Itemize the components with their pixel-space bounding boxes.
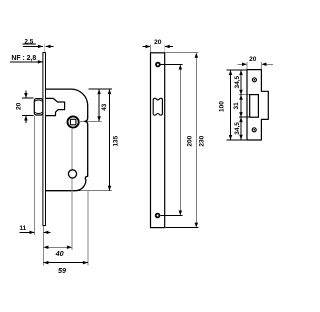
extension lines strike (100 dim): [227, 69, 247, 71]
svg-text:230: 230: [198, 135, 205, 146]
strike latch opening: [250, 95, 259, 118]
strike bottom screw hole: [252, 128, 256, 132]
dim 100 (strike height): [230, 70, 232, 140]
svg-text:2,5: 2,5: [24, 39, 33, 46]
dim 135 (case height): [109, 89, 111, 191]
svg-text:20: 20: [154, 39, 162, 46]
svg-text:40: 40: [55, 249, 64, 258]
strike top screw hole: [252, 78, 256, 82]
svg-text:135: 135: [113, 135, 120, 146]
svg-text:59: 59: [58, 266, 66, 275]
dim 43 (top to spindle axis): [98, 89, 100, 121]
faceplate latch cutout: [153, 98, 162, 115]
strike plate outline with lip: [247, 70, 268, 140]
svg-text:34,5: 34,5: [234, 122, 241, 135]
svg-text:20: 20: [15, 102, 22, 110]
dim 20 (faceplate width): [142, 46, 150, 48]
svg-text:200: 200: [186, 135, 193, 146]
middle view: faceplate front: [151, 53, 165, 228]
spindle follower circle: [68, 116, 79, 127]
dim 40 (backset): [43, 246, 72, 248]
faceplate side view (thin vertical plate): [43, 53, 46, 226]
gray extension line case back (59 dim): [87, 191, 89, 266]
dim 200 (screw hole spacing): [179, 65, 181, 216]
dim 20 (latch height): [22, 97, 34, 99]
extension line body top: [89, 88, 112, 90]
left view: lock body outline: [46, 89, 88, 191]
lower hole in case: [68, 170, 76, 178]
latch bolt tip (protruding): [34, 99, 43, 115]
gray extension line spindle axis (40 dim): [71, 129, 73, 250]
extension lines opening (34,5/31 dims): [239, 94, 250, 96]
gray extension line below faceplate (40/59 dims): [42, 226, 44, 266]
faceplate bottom screw hole: [156, 214, 160, 218]
svg-text:31: 31: [233, 102, 240, 110]
dim 34,5 top: [240, 70, 242, 95]
dim 31 middle: [240, 95, 242, 117]
extension line body bottom (to 135 dim): [75, 190, 112, 192]
dim 34,5 bottom: [240, 117, 242, 140]
spindle square hole: [70, 119, 76, 125]
latch bolt inner profile: [46, 98, 65, 115]
extension lines plate ends (230 dim): [166, 52, 199, 54]
svg-text:11: 11: [19, 225, 26, 232]
dim 11 (latch projection): [20, 231, 35, 233]
gray extension above faceplate (2,5 dim): [43, 44, 45, 53]
svg-text:43: 43: [101, 103, 108, 110]
dim 230 (faceplate length): [195, 53, 197, 228]
svg-text:NF : 2,8: NF : 2,8: [11, 55, 36, 62]
svg-text:20: 20: [249, 56, 257, 63]
extension lines hole centers (200 dim): [160, 64, 182, 66]
dim 20 (strike width): [238, 63, 248, 65]
dim 59 (case depth): [43, 262, 87, 264]
svg-text:34,5: 34,5: [234, 75, 241, 88]
faceplate top screw hole: [156, 63, 160, 67]
svg-text:100: 100: [218, 101, 225, 112]
dim 2,5 (faceplate thickness): [23, 43, 37, 45]
gray extension line from latch tip (11 dim): [34, 116, 36, 235]
spindle follower: extension line to 43 dim: [80, 120, 102, 122]
